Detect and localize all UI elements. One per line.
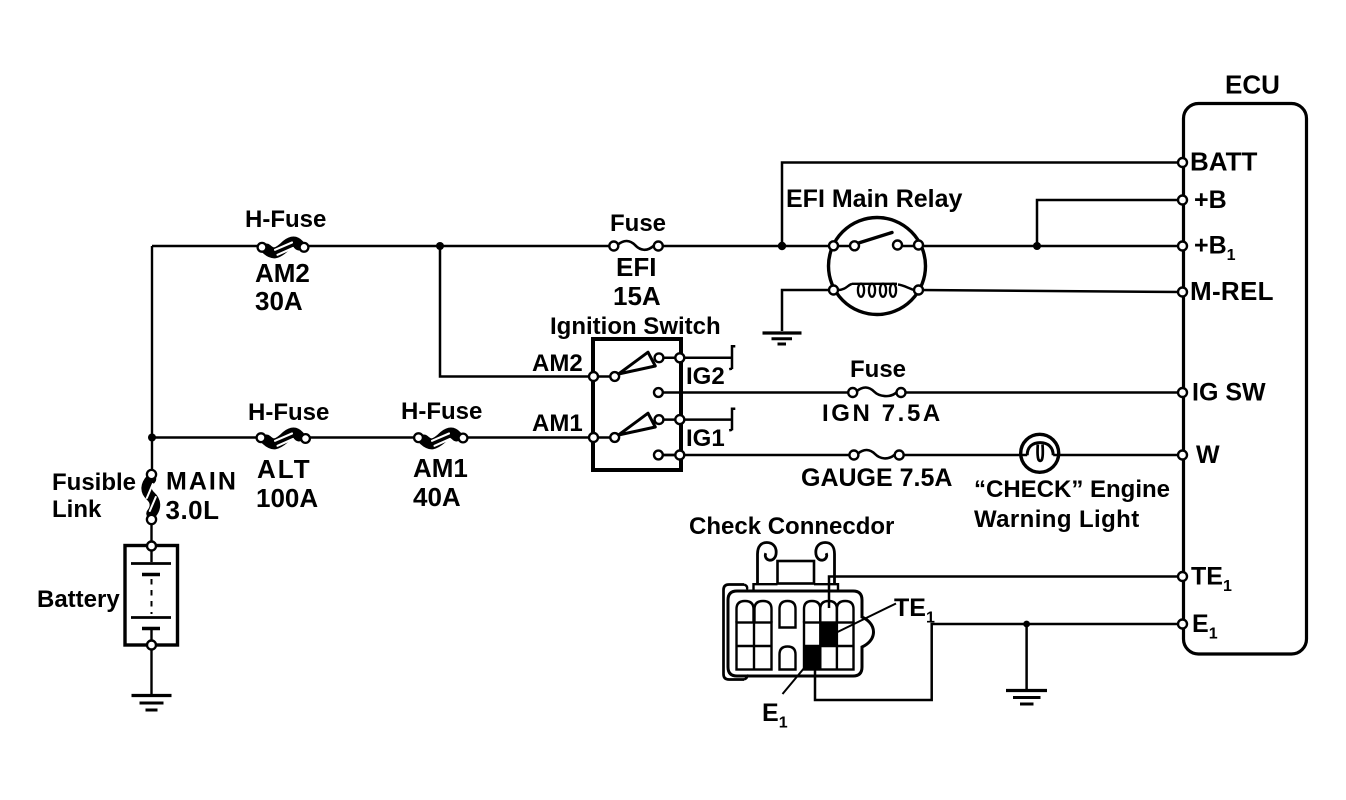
svg-text:Ignition Switch: Ignition Switch bbox=[550, 313, 721, 340]
wire: E1 line from check connector to ECU bbox=[815, 624, 1182, 700]
ECU box U1 bbox=[1184, 104, 1307, 655]
wire: AM2 branch from junction down to ignition switch bbox=[440, 246, 593, 377]
relay K1: EFI main relay bbox=[829, 218, 926, 315]
pin +B1 bbox=[1178, 242, 1187, 251]
pin W bbox=[1178, 451, 1187, 460]
pin TE1 bbox=[1178, 572, 1187, 581]
svg-text:EFI Main Relay: EFI Main Relay bbox=[786, 185, 963, 213]
svg-text:“CHECK” Engine: “CHECK” Engine bbox=[974, 476, 1170, 503]
neck lines bbox=[754, 584, 839, 591]
wire: W line from ignition switch through GAUGE fuse and lamp to ECU bbox=[662, 454, 1182, 457]
junction node: feed/AM2 branch bbox=[436, 242, 444, 250]
svg-text:H-Fuse: H-Fuse bbox=[248, 399, 329, 426]
svg-text:IG SW: IG SW bbox=[1192, 379, 1266, 407]
junction node: feed/BATT branch bbox=[778, 242, 786, 250]
svg-text:100A: 100A bbox=[256, 483, 318, 513]
left cavity group grid bbox=[737, 623, 772, 670]
ground: relay coil ground bbox=[763, 333, 802, 344]
svg-text:IG2: IG2 bbox=[686, 363, 725, 390]
svg-text:EFI: EFI bbox=[616, 252, 656, 282]
connector J1: check connector body bbox=[724, 543, 874, 680]
wire: fusible link to battery bbox=[150, 524, 152, 546]
svg-text:15A: 15A bbox=[613, 281, 661, 311]
svg-text:Warning Light: Warning Light bbox=[974, 506, 1140, 533]
wire: IG SW line from ignition switch through IGN fuse to ECU bbox=[662, 391, 1182, 394]
switch S1 lower pole AM1/IG1 bbox=[589, 413, 731, 459]
wire: M-REL line from relay coil to ECU bbox=[919, 290, 1183, 292]
fuse IGN 7.5A element bbox=[848, 387, 905, 397]
svg-text:W: W bbox=[1196, 441, 1220, 469]
left retainer bracket bbox=[724, 585, 745, 680]
svg-text:AM1: AM1 bbox=[532, 410, 583, 437]
H-fuse ALT 100A element bbox=[257, 433, 310, 446]
wire: TE1 line from check connector to ECU bbox=[829, 577, 1182, 609]
leader line TE1 bbox=[837, 604, 897, 633]
svg-text:+B: +B bbox=[1194, 186, 1227, 214]
junction node: feed/+B branch bbox=[1033, 242, 1041, 250]
wire: BATT line with corner down to junction bbox=[782, 163, 1182, 247]
svg-text:H-Fuse: H-Fuse bbox=[245, 206, 326, 233]
svg-text:H-Fuse: H-Fuse bbox=[401, 398, 482, 425]
junction node: left vertical / AM1 line bbox=[148, 434, 156, 442]
E1 pin cavity (filled) bbox=[804, 646, 820, 670]
switch S1 upper pole AM2/IG2 bbox=[589, 352, 731, 397]
right mounting ear bbox=[816, 543, 835, 586]
top tab bbox=[778, 561, 815, 584]
pin E1 bbox=[1178, 620, 1187, 629]
svg-text:Fuse: Fuse bbox=[610, 210, 666, 237]
wire: +B branch from junction up to ECU +B bbox=[1037, 200, 1182, 246]
wire: relay coil ground leg bbox=[782, 290, 834, 331]
svg-text:AM2: AM2 bbox=[255, 258, 310, 288]
svg-text:AM2: AM2 bbox=[532, 350, 583, 377]
battery BT1 bbox=[125, 542, 178, 650]
leader line E1 bbox=[783, 661, 811, 694]
svg-text:MAIN: MAIN bbox=[166, 468, 238, 496]
pin IG SW bbox=[1178, 388, 1187, 397]
middle small cavities bbox=[780, 601, 796, 628]
svg-text:IG1: IG1 bbox=[686, 425, 725, 452]
svg-text:Fuse: Fuse bbox=[850, 356, 906, 383]
svg-text:ALT: ALT bbox=[257, 454, 312, 484]
TE1 pin cavity (filled) bbox=[820, 623, 837, 647]
svg-text:40A: 40A bbox=[413, 482, 461, 512]
svg-text:AM1: AM1 bbox=[413, 453, 468, 483]
pin M-REL bbox=[1178, 288, 1187, 297]
ground: E1 ground bbox=[1006, 691, 1047, 705]
svg-text:GAUGE 7.5A: GAUGE 7.5A bbox=[801, 464, 952, 492]
fusible link element bbox=[147, 470, 156, 524]
wire: left vertical from top feed down to fusible link bbox=[151, 246, 153, 470]
fuse EFI 15A element bbox=[609, 241, 663, 251]
wire: battery to ground bbox=[150, 650, 152, 695]
wire: E1 ground leg bbox=[1025, 624, 1028, 689]
svg-text:IGN 7.5A: IGN 7.5A bbox=[822, 400, 943, 427]
svg-text:Check Connecdor: Check Connecdor bbox=[689, 513, 894, 540]
lamp: CHECK engine warning light bbox=[1021, 434, 1059, 472]
svg-text:30A: 30A bbox=[255, 286, 303, 316]
junction node: E1 / ground tap bbox=[1023, 621, 1030, 628]
right cavity group grid bbox=[804, 623, 854, 670]
open-end tick on IG1 wire bbox=[729, 409, 735, 431]
svg-text:ECU: ECU bbox=[1225, 70, 1280, 100]
main body outline bbox=[728, 591, 874, 676]
svg-text:M-REL: M-REL bbox=[1190, 276, 1274, 306]
H-fuse AM1 40A element bbox=[414, 433, 467, 446]
svg-text:3.0L: 3.0L bbox=[166, 495, 220, 525]
left cavity group arches bbox=[737, 601, 754, 623]
wire: +B1 main feed line (battery to ECU +B1) bbox=[152, 245, 1182, 248]
left mounting ear bbox=[758, 543, 777, 586]
open-end tick on IG2 wire bbox=[729, 346, 735, 369]
svg-text:Battery: Battery bbox=[37, 586, 120, 613]
switch S1: ignition switch box bbox=[593, 339, 681, 470]
H-fuse AM2 30A element bbox=[258, 242, 309, 255]
pin +B bbox=[1178, 196, 1187, 205]
wire: AM1 line from left vertical to ignition switch bbox=[152, 436, 593, 439]
fuse GAUGE 7.5A element bbox=[849, 450, 903, 460]
pin BATT bbox=[1178, 158, 1187, 167]
svg-text:BATT: BATT bbox=[1190, 147, 1258, 177]
right cavity group arches bbox=[804, 601, 820, 623]
ground: battery ground bbox=[132, 696, 172, 711]
svg-text:Link: Link bbox=[52, 496, 102, 523]
svg-text:Fusible: Fusible bbox=[52, 469, 136, 496]
